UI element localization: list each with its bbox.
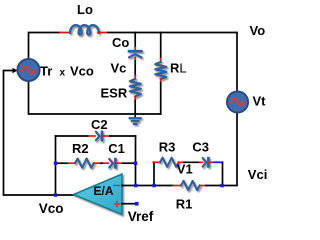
svg-text:Tr: Tr xyxy=(40,64,52,79)
wire C2 top left xyxy=(56,135,89,137)
svg-text:V1: V1 xyxy=(177,162,193,177)
wire ESR red stub top xyxy=(134,76,136,80)
svg-text:Vt: Vt xyxy=(253,94,267,109)
node R2C1 right xyxy=(134,162,138,166)
wire right vertical down to node xyxy=(222,162,224,185)
svg-text:Vci: Vci xyxy=(248,167,268,182)
wire R1 red stub right xyxy=(200,185,206,187)
capacitor C2 xyxy=(96,132,102,141)
svg-text:ESR: ESR xyxy=(101,86,128,101)
capacitor Co xyxy=(129,51,141,57)
wire C3 blue segment to corner xyxy=(214,161,223,163)
minus mark xyxy=(114,185,119,187)
wire Vt bottom down and left to node xyxy=(222,113,237,186)
svg-text:C1: C1 xyxy=(108,141,125,156)
source Tr x Vco xyxy=(17,59,39,81)
wire ESR red stub bottom xyxy=(134,97,136,101)
wire box left vertical xyxy=(55,136,57,195)
wire Co to ESR xyxy=(134,61,136,76)
wire C2 red stub left xyxy=(89,135,96,137)
wire R2-C1 red stubs xyxy=(94,162,101,164)
inductor Lo xyxy=(70,25,99,35)
arrowhead into source xyxy=(13,68,18,73)
resistor R1 xyxy=(181,181,200,190)
wire top-left from source to inductor xyxy=(29,33,61,60)
svg-text:Co: Co xyxy=(112,35,129,50)
wire C3 red stub right xyxy=(209,161,214,163)
svg-text:Lo: Lo xyxy=(77,2,93,17)
resistor R2 xyxy=(75,159,94,168)
node inverting wire mid xyxy=(152,184,156,188)
wire RL red stub top xyxy=(160,59,162,63)
svg-text:R1: R1 xyxy=(176,196,193,211)
resistor RL xyxy=(155,62,166,79)
svg-text:E/A: E/A xyxy=(94,184,114,198)
wire R1 to right node xyxy=(206,185,222,187)
wire R3 red stub right xyxy=(179,161,184,163)
svg-text:Vref: Vref xyxy=(128,209,154,224)
svg-text:Vco: Vco xyxy=(39,201,64,216)
wire Co branch top xyxy=(134,33,136,48)
source Vt xyxy=(227,91,248,112)
wire inductor right lead xyxy=(98,32,108,34)
wire C1 red stub right xyxy=(117,162,124,164)
wire R3 to C3 xyxy=(184,161,200,163)
wire inverting input xyxy=(122,185,173,187)
wire source bottom loop xyxy=(29,81,161,114)
svg-text:Vo: Vo xyxy=(250,23,266,38)
op-amp E/A xyxy=(74,174,123,215)
svg-text:x: x xyxy=(60,68,66,79)
wire R3 red stub left xyxy=(153,161,160,163)
wire RL to bottom wire xyxy=(160,83,162,114)
svg-text:R3: R3 xyxy=(159,139,176,154)
svg-text:Vco: Vco xyxy=(70,64,94,79)
svg-text:R2: R2 xyxy=(72,141,89,156)
wire C3 red stub left xyxy=(200,161,203,163)
svg-text:C3: C3 xyxy=(192,139,209,154)
plus mark xyxy=(115,202,120,207)
ground xyxy=(130,118,141,124)
wire R2 row left xyxy=(56,162,69,164)
resistor R3 xyxy=(160,158,179,167)
wire Co red stub top xyxy=(134,48,136,51)
svg-text:C2: C2 xyxy=(91,117,108,132)
wire C2 red stub right xyxy=(103,135,110,137)
wire R1 red stub left xyxy=(173,185,181,187)
wire top to right corner down to Vt xyxy=(108,33,237,92)
wire C1 to box right xyxy=(123,162,136,164)
wire Vref stub xyxy=(122,203,135,205)
capacitor C1 xyxy=(109,159,115,168)
node R2C1 left xyxy=(54,162,58,166)
wire R3 branch left vertical xyxy=(153,162,155,185)
node right xyxy=(220,184,224,188)
wire box right vertical xyxy=(135,136,137,186)
wire RL branch top xyxy=(160,33,162,59)
wire C2 top right xyxy=(110,135,136,137)
wire RL red stub bottom xyxy=(160,79,162,83)
node Vref terminal xyxy=(135,202,139,206)
resistor ESR xyxy=(130,79,141,97)
wire Co red stub bottom xyxy=(134,58,136,62)
node at Vco wire xyxy=(54,193,58,197)
wire feedback left vertical xyxy=(4,71,74,196)
wire R2 red stub left xyxy=(68,162,75,164)
capacitor C3 xyxy=(203,158,209,167)
svg-text:RL: RL xyxy=(170,61,187,76)
node inverting wire left xyxy=(134,184,138,188)
svg-text:Vc: Vc xyxy=(111,61,127,76)
wire inductor left lead xyxy=(60,32,70,34)
wire ESR to bottom wire xyxy=(134,101,136,117)
